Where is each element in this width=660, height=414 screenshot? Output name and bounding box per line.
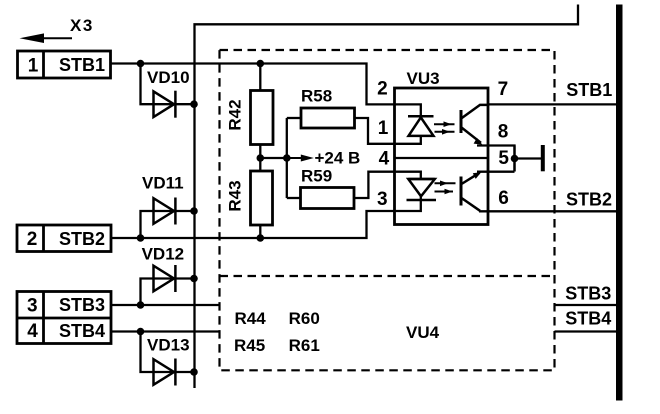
svg-text:VU4: VU4 xyxy=(406,323,440,342)
svg-text:6: 6 xyxy=(498,188,509,209)
svg-text:R60: R60 xyxy=(289,309,320,328)
svg-text:4: 4 xyxy=(27,321,38,342)
svg-text:VU3: VU3 xyxy=(407,69,440,88)
svg-text:R59: R59 xyxy=(301,167,332,186)
svg-text:STB3: STB3 xyxy=(59,295,105,315)
svg-text:R43: R43 xyxy=(225,180,244,211)
svg-text:VD10: VD10 xyxy=(147,68,190,87)
svg-text:4: 4 xyxy=(379,148,390,169)
svg-text:R58: R58 xyxy=(301,87,332,106)
svg-text:8: 8 xyxy=(498,122,509,143)
svg-text:STB4: STB4 xyxy=(59,321,105,341)
svg-text:3: 3 xyxy=(377,189,388,210)
svg-text:X3: X3 xyxy=(70,16,94,35)
svg-text:STB1: STB1 xyxy=(566,80,612,100)
svg-text:STB1: STB1 xyxy=(59,55,105,75)
svg-text:2: 2 xyxy=(27,229,38,250)
svg-text:R44: R44 xyxy=(235,309,267,328)
svg-text:2: 2 xyxy=(377,79,388,100)
svg-text:VD13: VD13 xyxy=(147,336,190,355)
svg-text:R42: R42 xyxy=(226,99,245,130)
svg-text:1: 1 xyxy=(28,56,39,77)
svg-text:VD11: VD11 xyxy=(142,174,184,193)
svg-text:STB4: STB4 xyxy=(565,309,611,329)
svg-text:STB2: STB2 xyxy=(566,190,612,210)
svg-text:R61: R61 xyxy=(289,336,320,355)
svg-text:1: 1 xyxy=(378,118,389,139)
svg-text:STB3: STB3 xyxy=(565,284,611,304)
svg-text:5: 5 xyxy=(498,148,509,169)
svg-text:R45: R45 xyxy=(234,336,265,355)
svg-text:+24 В: +24 В xyxy=(315,149,361,168)
svg-text:STB2: STB2 xyxy=(59,229,105,249)
svg-text:7: 7 xyxy=(498,79,509,100)
svg-text:VD12: VD12 xyxy=(142,245,185,264)
svg-text:3: 3 xyxy=(27,296,38,317)
